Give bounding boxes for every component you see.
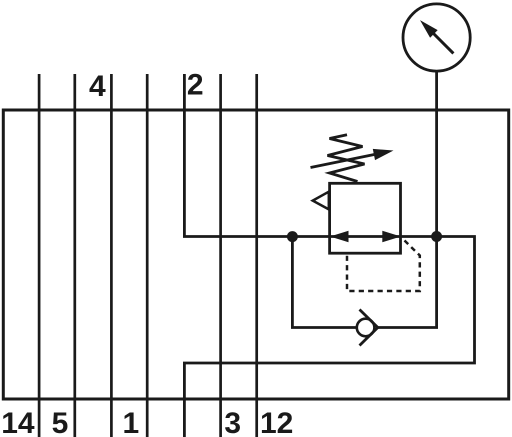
regulator passage arrow right — [382, 231, 401, 242]
gauge needle — [432, 32, 453, 53]
port line 12 — [255, 74, 258, 437]
port line 1 — [146, 74, 149, 437]
junction node A — [287, 231, 298, 242]
gauge needle head — [420, 20, 438, 38]
port line 4 — [110, 74, 113, 437]
junction node B — [431, 231, 442, 242]
check valve branch wires — [292, 237, 356, 328]
svg-text:12: 12 — [260, 407, 293, 437]
gauge stem wire — [435, 70, 438, 237]
port line 3 — [219, 74, 222, 437]
check valve seat — [360, 310, 378, 346]
manifold plate outline — [3, 110, 508, 399]
adjustment arrow head — [373, 149, 394, 160]
port line 5 — [73, 74, 76, 437]
svg-text:4: 4 — [89, 70, 106, 103]
pressure gauge G1 — [403, 4, 470, 71]
svg-text:3: 3 — [224, 407, 241, 437]
svg-text:14: 14 — [1, 407, 35, 437]
pilot line (dashed) — [347, 241, 420, 292]
wire: port 2 drop, regulated line and return loop — [184, 74, 474, 437]
relief vent triangle — [313, 192, 329, 210]
adjustment spring — [328, 135, 365, 182]
svg-text:5: 5 — [52, 407, 69, 437]
port line 14 — [38, 74, 41, 437]
regulator body U1 — [330, 183, 401, 253]
svg-text:1: 1 — [122, 407, 139, 437]
check valve V1 ball — [357, 319, 375, 337]
adjustment arrow shaft — [311, 154, 376, 167]
svg-text:2: 2 — [187, 69, 204, 102]
regulator passage arrow left — [330, 231, 349, 242]
